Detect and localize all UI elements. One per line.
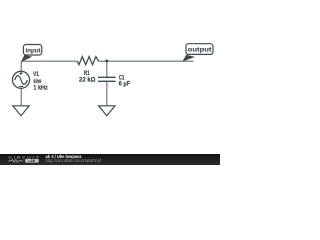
voltage source V1: plus sign <box>19 71 23 75</box>
node output: label box <box>186 44 213 55</box>
value label V1 <box>33 71 39 78</box>
value label 22 kOhm <box>79 76 96 83</box>
CircuitLab logo: LAB box <box>25 159 39 163</box>
svg-text:6 µF: 6 µF <box>119 81 131 88</box>
node A: junction dot between R1 and C1 <box>105 59 108 62</box>
node input: label box <box>23 45 41 56</box>
svg-text:V1: V1 <box>33 71 39 78</box>
svg-text:LAB: LAB <box>29 159 36 163</box>
svg-text:1 kHz: 1 kHz <box>33 85 48 92</box>
capacitor C1: two plates <box>98 77 116 81</box>
footer text: circuit title <box>46 154 83 159</box>
wire: input node down to V1 top <box>20 61 22 71</box>
wire: node down to C1 top plate <box>106 61 108 77</box>
value label 1 kHz <box>33 85 48 92</box>
voltage source V1: circle body <box>12 71 29 88</box>
svg-text:22 kΩ: 22 kΩ <box>79 76 96 83</box>
wire: C1 bottom plate to ground <box>106 81 108 105</box>
svg-text:input: input <box>26 48 42 55</box>
value label R1 <box>84 70 90 77</box>
footer text: url <box>46 158 102 163</box>
svg-text:output: output <box>188 46 213 53</box>
ground: under V1 <box>13 106 29 116</box>
svg-text:http://circuitlab.com/c/ab67ns: http://circuitlab.com/c/ab67nsf <box>46 158 102 163</box>
resistor R1: zigzag body <box>77 57 98 65</box>
wire: main horizontal net from input node to output end <box>21 60 193 62</box>
value label C1 <box>119 74 125 81</box>
voltage source V1: minus sign <box>19 86 23 88</box>
footer bar <box>0 154 220 165</box>
value label sine <box>33 78 41 85</box>
CircuitLab logo: resistor squiggle <box>8 160 23 163</box>
voltage source V1: sine symbol <box>15 76 28 85</box>
CircuitLab logo: CIRCUIT wordmark <box>8 155 38 160</box>
node output: flag pointer wedge <box>182 55 195 62</box>
wire: V1 bottom to ground <box>20 88 22 105</box>
value label 6 uF <box>119 81 131 88</box>
ground: under C1 <box>99 106 115 116</box>
node input: flag pointer wedge <box>21 55 32 62</box>
